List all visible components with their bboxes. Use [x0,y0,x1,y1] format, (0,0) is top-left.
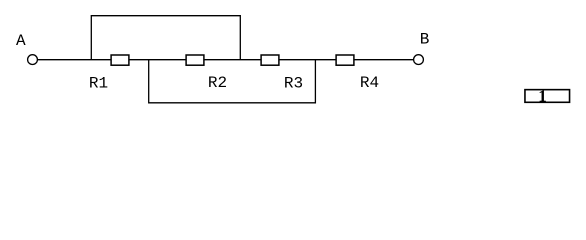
svg-text:R1: R1 [89,74,108,92]
svg-text:R4: R4 [360,74,379,92]
wire: main horizontal A to B [38,59,414,61]
page number box [525,90,570,103]
svg-text:1: 1 [538,87,547,106]
terminal A [28,55,38,65]
svg-text:R2: R2 [208,74,227,92]
svg-text:R3: R3 [284,74,303,92]
svg-text:B: B [420,31,430,49]
resistor R1 [111,55,129,65]
wire: top bypass loop over R1 and R2 [91,16,240,60]
resistor R2 [186,55,204,65]
terminal B [414,55,424,65]
resistor R4 [336,55,354,65]
resistor R3 [261,55,279,65]
wire: bottom bypass loop under R2 and R3 [149,60,316,103]
svg-text:A: A [16,32,26,50]
